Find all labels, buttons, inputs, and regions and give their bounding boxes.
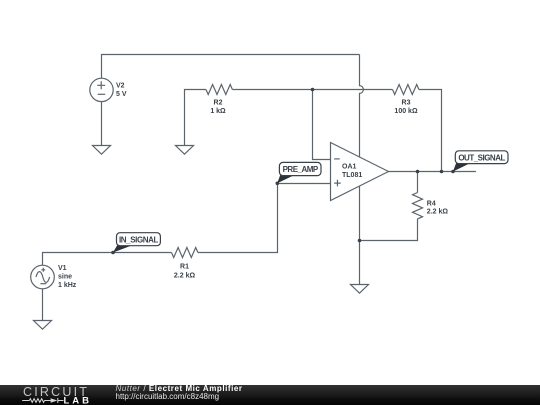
svg-text:sine: sine xyxy=(58,274,72,281)
svg-text:IN_SIGNAL: IN_SIGNAL xyxy=(119,235,159,244)
svg-text:2.2 kΩ: 2.2 kΩ xyxy=(427,209,449,216)
svg-text:R1: R1 xyxy=(180,264,189,271)
svg-text:100 kΩ: 100 kΩ xyxy=(394,108,418,115)
svg-text:1 kHz: 1 kHz xyxy=(58,282,77,289)
svg-text:2.2 kΩ: 2.2 kΩ xyxy=(174,273,196,280)
svg-text:V2: V2 xyxy=(116,83,125,90)
svg-text:V1: V1 xyxy=(58,265,67,272)
svg-text:5 V: 5 V xyxy=(116,91,127,98)
svg-text:R3: R3 xyxy=(402,100,411,107)
svg-text:R4: R4 xyxy=(427,201,436,208)
svg-text:OUT_SIGNAL: OUT_SIGNAL xyxy=(458,153,505,162)
svg-text:OA1: OA1 xyxy=(342,164,357,171)
svg-text:TL081: TL081 xyxy=(342,172,362,179)
svg-text:R2: R2 xyxy=(214,100,223,107)
svg-text:LAB: LAB xyxy=(64,395,93,404)
svg-text:1 kΩ: 1 kΩ xyxy=(210,108,226,115)
svg-text:PRE_AMP: PRE_AMP xyxy=(283,165,319,174)
